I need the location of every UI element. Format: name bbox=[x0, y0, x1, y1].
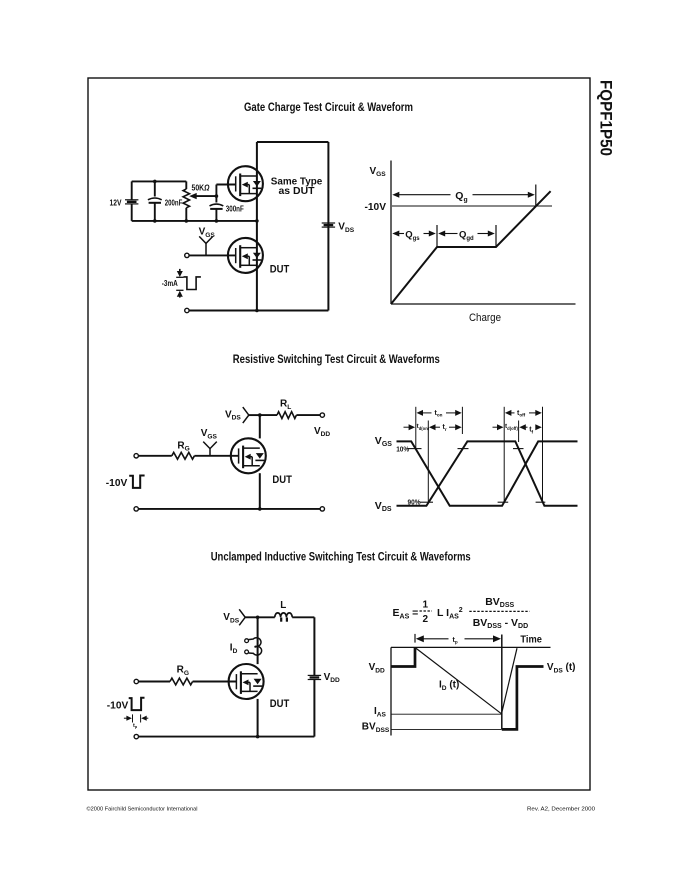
inductor L bbox=[275, 613, 292, 617]
junction dot C1 top bbox=[153, 180, 157, 184]
transistor Q2 DUT bbox=[228, 238, 263, 273]
Qgd tick bbox=[495, 225, 497, 247]
svg-text:EAS =: EAS = bbox=[393, 607, 419, 620]
svg-text:tp: tp bbox=[453, 637, 458, 645]
tp marker (circuit 3) bbox=[124, 717, 129, 719]
wire top-left rail bbox=[132, 180, 187, 182]
junction dot source at bottom rail (circuit 3) bbox=[256, 735, 260, 739]
svg-text:RL: RL bbox=[280, 399, 291, 411]
90% tick right bbox=[536, 501, 546, 503]
wire node to RL bbox=[260, 414, 277, 416]
wire right vertical VDS branch bbox=[327, 142, 329, 311]
waveform3 left axis bbox=[390, 647, 392, 735]
probe VGS (circuit 2) bbox=[203, 442, 217, 449]
svg-text:2: 2 bbox=[423, 614, 429, 625]
bottom-left terminal circuit 3 bbox=[134, 734, 138, 738]
IAS level line bbox=[391, 713, 502, 715]
svg-text:-3mA: -3mA bbox=[162, 279, 178, 288]
ID(t) recovery line bbox=[502, 648, 518, 714]
t_r arrow bbox=[429, 424, 436, 430]
90% tick mid bbox=[498, 501, 509, 503]
svg-text:VGS: VGS bbox=[370, 166, 387, 178]
probe VDS (circuit 2) bbox=[243, 407, 249, 423]
battery V1 12V symbol bbox=[125, 199, 138, 201]
wire bottom-left rail bbox=[132, 220, 257, 222]
svg-text:Unclamped Inductive Switching: Unclamped Inductive Switching Test Circu… bbox=[211, 552, 471, 564]
svg-text:DUT: DUT bbox=[270, 698, 290, 710]
gate terminal (open circle) bbox=[185, 253, 189, 257]
transistor Q4 DUT (circuit 3) bbox=[229, 664, 264, 699]
svg-text:tf: tf bbox=[529, 427, 533, 435]
svg-text:DUT: DUT bbox=[270, 263, 290, 275]
junction dot C1 bottom bbox=[153, 219, 157, 223]
bottom-right terminal circuit 2 bbox=[320, 507, 324, 511]
guide line td(off) start bbox=[503, 407, 505, 502]
wire drain bus lower (node to DUT to bottom) bbox=[256, 221, 258, 311]
svg-text:toff: toff bbox=[517, 410, 526, 418]
wire RG to gate (circuit 3) bbox=[193, 681, 237, 683]
page border frame bbox=[88, 78, 590, 790]
svg-text:VDD: VDD bbox=[324, 672, 340, 684]
potentiometer R1 50K ohm bbox=[185, 181, 187, 189]
VDS trace (waveform2) bbox=[397, 441, 578, 505]
source terminal (open circle) bbox=[185, 308, 189, 312]
svg-text:©2000 Fairchild Semiconductor: ©2000 Fairchild Semiconductor Internatio… bbox=[87, 806, 198, 813]
wire drain bus to top node (circuit 3) bbox=[257, 617, 259, 664]
guide line td(on) start bbox=[415, 407, 417, 449]
wire node to inductor bbox=[258, 616, 275, 618]
junction dot pot bottom bbox=[185, 219, 189, 223]
VGS trace (waveform2) bbox=[397, 441, 578, 505]
svg-text:VGS: VGS bbox=[199, 227, 216, 239]
svg-text:10%: 10% bbox=[396, 445, 409, 454]
wire bottom rail circuit 3 bbox=[139, 736, 315, 738]
wire RL to VDD terminal bbox=[296, 414, 320, 416]
guide line tf end bbox=[542, 407, 544, 502]
gate terminal circuit 2 bbox=[134, 454, 138, 458]
svg-text:BVDSS: BVDSS bbox=[485, 596, 514, 609]
VDS(t) thick trace end bbox=[502, 667, 544, 730]
wire gate lead-in (circuit 3) bbox=[139, 681, 171, 683]
svg-text:L: L bbox=[280, 600, 286, 611]
t_off arrow bbox=[505, 410, 512, 416]
Qg arrow bbox=[392, 192, 399, 198]
guide line td(off) end bbox=[518, 421, 520, 443]
wire top rail bbox=[257, 141, 329, 143]
svg-text:FQPF1P50: FQPF1P50 bbox=[597, 80, 615, 156]
svg-text:VDS: VDS bbox=[338, 222, 354, 234]
svg-text:-10V: -10V bbox=[365, 201, 387, 213]
pulse glyph -10V (circuit 2) bbox=[129, 476, 144, 488]
junction dot drain node bbox=[258, 413, 262, 417]
equation fraction bar bbox=[469, 610, 529, 612]
svg-text:ID: ID bbox=[230, 643, 238, 655]
bottom-left terminal circuit 2 bbox=[134, 507, 138, 511]
svg-text:1: 1 bbox=[423, 600, 429, 611]
svg-text:12V: 12V bbox=[110, 198, 123, 207]
wire wiper junction to gate of Q1 bbox=[215, 185, 217, 197]
svg-text:td(off): td(off) bbox=[505, 423, 518, 431]
wire bottom rail circuit 1 bbox=[189, 310, 328, 312]
svg-text:VDS: VDS bbox=[375, 500, 392, 513]
junction dot C2 bottom bbox=[215, 219, 219, 223]
svg-text:L IAS2: L IAS2 bbox=[437, 607, 463, 621]
source VDD symbol (circuit 3) bbox=[308, 674, 321, 676]
Qgs tick bbox=[436, 225, 438, 247]
t_d(off) lead arrow bbox=[493, 426, 500, 428]
waveform1 Y axis bbox=[390, 161, 392, 305]
resistor RG (circuit 2) bbox=[172, 452, 195, 459]
svg-text:BVDSS - VDD: BVDSS - VDD bbox=[473, 617, 528, 630]
svg-text:Resistive Switching Test Circu: Resistive Switching Test Circuit & Wavef… bbox=[233, 354, 440, 366]
svg-text:90%: 90% bbox=[408, 498, 421, 507]
current probe ID loop bbox=[245, 639, 249, 643]
t_f arrow bbox=[519, 424, 526, 430]
junction dot DUT source at bottom rail bbox=[255, 309, 259, 313]
wire drain bus upper (top rail to Q1) bbox=[256, 142, 258, 221]
svg-text:Qgd: Qgd bbox=[459, 230, 474, 242]
-10V level line bbox=[392, 205, 552, 207]
10% tick mid bbox=[458, 448, 469, 450]
Qgd arrow bbox=[438, 231, 445, 237]
capacitor C1 200nF bbox=[154, 181, 156, 196]
junction dot wiper node bbox=[215, 194, 219, 198]
pulse glyph -10V (circuit 3) bbox=[129, 698, 145, 710]
wire right vertical branch (circuit 3) bbox=[313, 617, 315, 675]
svg-text:VGS: VGS bbox=[375, 435, 392, 448]
terminal VDD (circuit 2) bbox=[320, 413, 324, 417]
svg-text:as DUT: as DUT bbox=[279, 185, 316, 197]
svg-text:-10V: -10V bbox=[107, 701, 129, 712]
svg-text:VDS: VDS bbox=[225, 409, 241, 421]
waveform1 X axis bbox=[391, 303, 576, 305]
junction dot source at bottom rail (circuit 2) bbox=[258, 507, 262, 511]
svg-text:Gate Charge Test Circuit & Wav: Gate Charge Test Circuit & Waveform bbox=[244, 102, 413, 114]
10% tick right bbox=[513, 448, 524, 450]
t_on arrow bbox=[417, 410, 424, 416]
svg-text:RG: RG bbox=[177, 665, 189, 677]
svg-text:VDS: VDS bbox=[223, 612, 239, 624]
probe VDS (circuit 3) bbox=[239, 609, 245, 625]
wire source bus to bottom rail (circuit 3) bbox=[257, 699, 259, 737]
junction dot mid bus bbox=[255, 219, 259, 223]
guide line tr end bbox=[461, 407, 463, 434]
svg-text:VGS: VGS bbox=[201, 428, 218, 440]
svg-text:Qgs: Qgs bbox=[405, 230, 420, 242]
svg-text:BVDSS: BVDSS bbox=[362, 722, 390, 734]
90% tick left bbox=[420, 501, 434, 503]
svg-text:-10V: -10V bbox=[106, 478, 128, 489]
gate terminal circuit 3 bbox=[134, 679, 138, 683]
wire drain bus up to node bbox=[259, 415, 261, 438]
svg-text:ID (t): ID (t) bbox=[439, 680, 459, 692]
svg-text:VDD: VDD bbox=[314, 426, 330, 438]
10% tick left bbox=[408, 448, 422, 450]
source VDS symbol bbox=[322, 222, 335, 224]
gate charge curve bbox=[391, 191, 551, 304]
Qg end tick bbox=[535, 185, 537, 207]
waveform3 top axis bbox=[391, 646, 551, 648]
svg-text:ton: ton bbox=[435, 410, 443, 418]
svg-text:tr: tr bbox=[443, 424, 447, 432]
potentiometer wiper arrow bbox=[189, 193, 197, 199]
wire gate to DUT bbox=[189, 254, 236, 256]
svg-text:300nF: 300nF bbox=[226, 205, 244, 214]
resistor RG (circuit 3) bbox=[170, 678, 193, 685]
svg-text:200nF: 200nF bbox=[165, 198, 183, 207]
t_d(on) lead arrow bbox=[404, 426, 411, 428]
svg-text:DUT: DUT bbox=[272, 474, 292, 486]
wire gate lead-in bbox=[138, 455, 171, 457]
wire source bus down to bottom rail bbox=[259, 473, 261, 509]
svg-text:50KΩ: 50KΩ bbox=[192, 184, 211, 193]
svg-text:Time: Time bbox=[520, 633, 542, 645]
current source pulse -3mA glyph bbox=[179, 269, 181, 274]
guide line td(on) end bbox=[427, 421, 429, 503]
svg-text:VDD: VDD bbox=[369, 662, 385, 674]
tp arrow (waveform 3) bbox=[414, 634, 416, 643]
ID(t) ramp diagonal bbox=[416, 648, 502, 714]
svg-text:tp: tp bbox=[133, 723, 138, 729]
transistor Q3 DUT (circuit 2) bbox=[231, 438, 266, 473]
capacitor C2 300nF bbox=[215, 196, 217, 202]
BVDSS level line bbox=[391, 728, 502, 730]
wire RG to gate bbox=[194, 455, 238, 457]
svg-text:IAS: IAS bbox=[374, 706, 387, 718]
transistor Q1 Same Type as DUT bbox=[228, 166, 263, 201]
probe VGS (circuit 1) bbox=[199, 236, 213, 243]
svg-text:Qg: Qg bbox=[455, 190, 467, 203]
resistor RL bbox=[277, 412, 296, 419]
wire bottom rail circuit 2 bbox=[138, 508, 320, 510]
VDS(t) thick trace start (VDD level) bbox=[391, 647, 415, 666]
VDS(t) drop guide vertical bbox=[501, 635, 503, 730]
svg-text:VDS (t): VDS (t) bbox=[547, 662, 576, 674]
Qgs arrow bbox=[392, 231, 399, 237]
svg-text:Rev. A2, December 2000: Rev. A2, December 2000 bbox=[527, 807, 595, 813]
svg-text:RG: RG bbox=[177, 440, 189, 452]
junction dot top node (circuit 3) bbox=[256, 616, 260, 620]
svg-text:Charge: Charge bbox=[469, 312, 501, 324]
wire inductor to right branch bbox=[292, 616, 314, 618]
